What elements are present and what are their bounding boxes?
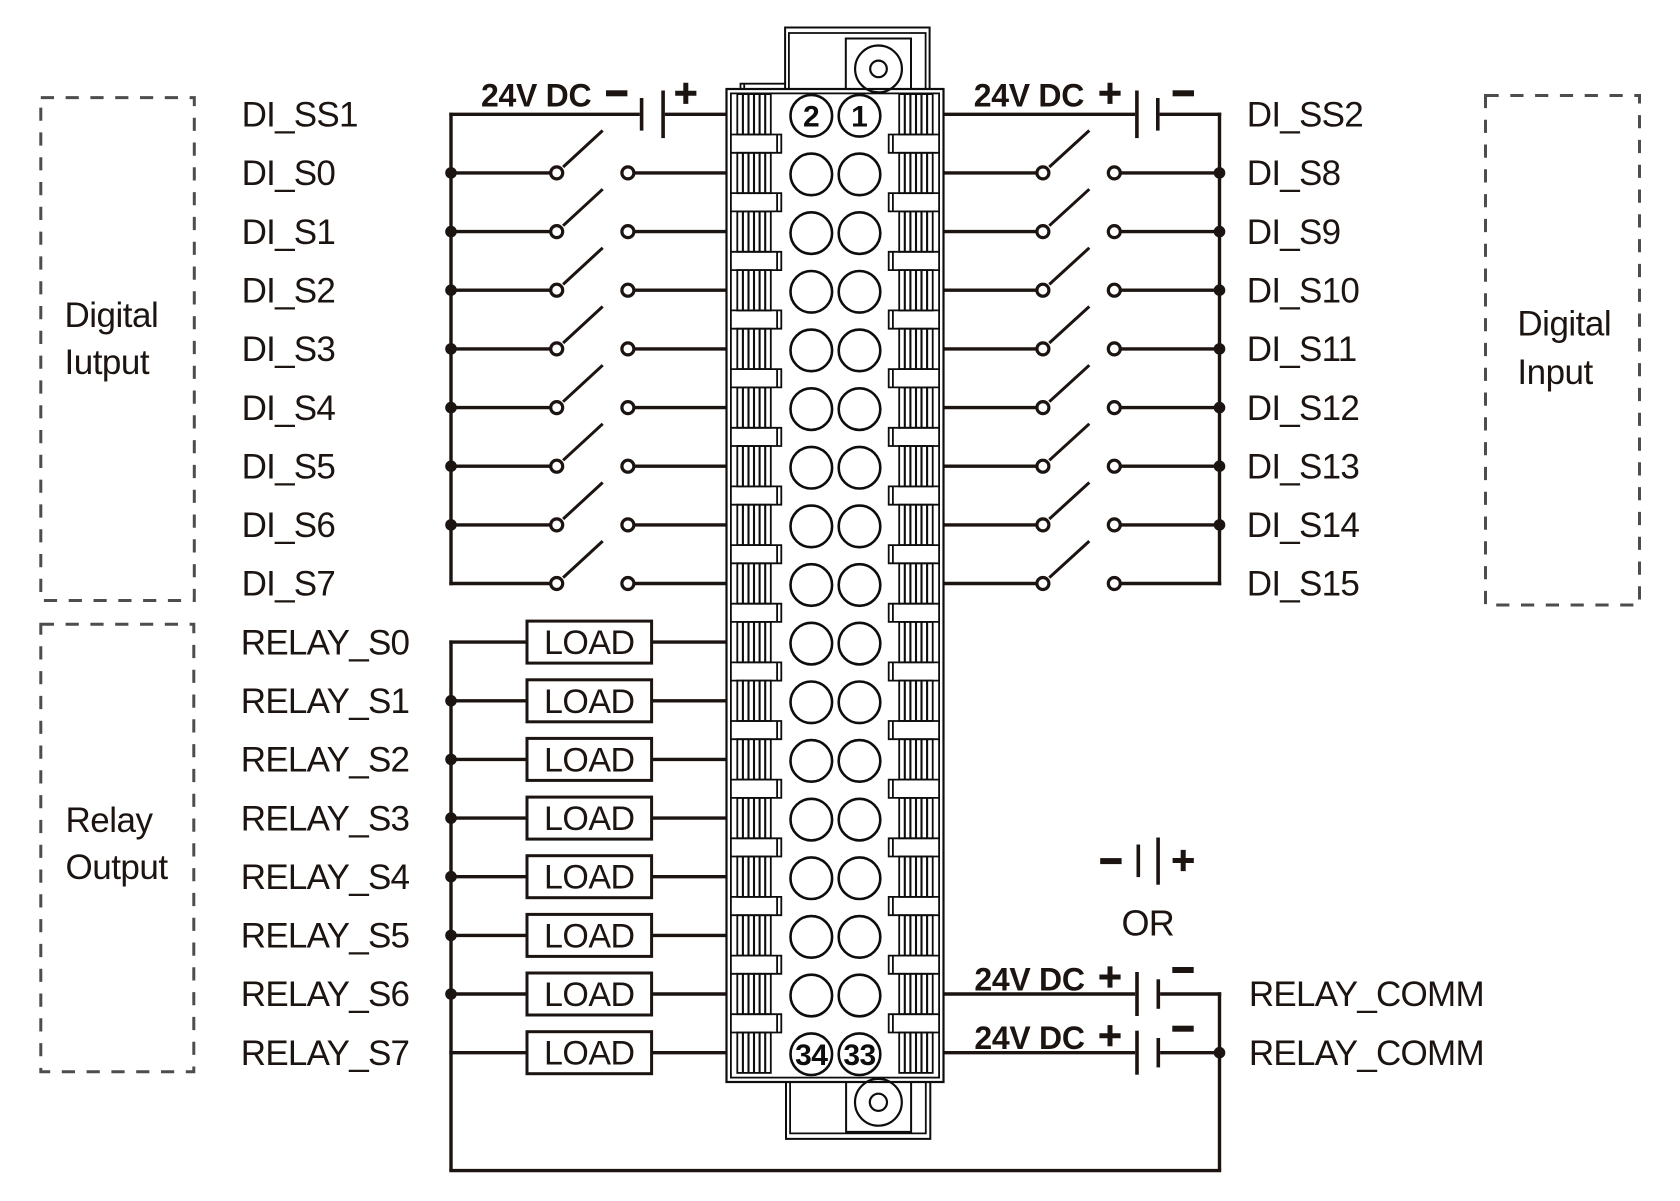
wire RELAY_S0 row: bus to load [449, 640, 527, 643]
housing clamp tooth row 11 right [899, 681, 933, 721]
terminal row 13 left pin [791, 799, 833, 841]
terminal row 4 left pin [791, 271, 833, 313]
housing clamp tooth row 8 right [899, 505, 933, 545]
housing divider step 3 right [889, 252, 939, 270]
housing clamp tooth row 11 left [737, 681, 771, 721]
terminal row 9 right pin [839, 564, 881, 606]
wire DI_S4 row: switch to connector [635, 406, 727, 409]
wire DI_S10 row: switch to bus [1121, 289, 1221, 292]
housing clamp tooth row 14 left [737, 857, 771, 897]
housing divider step 11 right [889, 721, 939, 739]
terminal pin 2 [791, 95, 833, 137]
label Digital Input [1517, 305, 1611, 393]
svg-text:DI_S2: DI_S2 [242, 271, 336, 310]
dashed group box: Digital Iutput (left top) [41, 98, 195, 601]
terminal pin 33 [839, 1033, 881, 1075]
terminal row 3 right pin [839, 212, 881, 254]
svg-text:RELAY_S0: RELAY_S0 [241, 623, 410, 662]
housing divider step 7 left [731, 486, 781, 504]
svg-text:1: 1 [851, 101, 868, 134]
wire DI_S1 row: switch to connector [635, 230, 727, 233]
svg-text:24V DC: 24V DC [974, 962, 1084, 998]
dashed group box: Relay Output (left bottom) [41, 624, 194, 1071]
svg-text:Digital: Digital [1517, 305, 1611, 344]
svg-text:Relay: Relay [66, 801, 154, 840]
label Relay Output [66, 801, 169, 887]
dashed group box: Digital Input (right) [1486, 96, 1640, 606]
housing clamp tooth row 3 right [899, 211, 933, 251]
svg-text:OR: OR [1122, 902, 1175, 943]
wire DI_S3 row: bus to switch [449, 347, 549, 350]
switch SW9 (DI_S9) [1037, 189, 1120, 237]
wire DI_S5 row: switch to connector [635, 465, 727, 468]
junction node DI_S4 on left bus [445, 402, 457, 414]
wire DI_S13 row: switch to bus [1121, 465, 1221, 468]
wire RELAY_S1 row: load to connector [652, 699, 727, 702]
housing divider step 16 left [731, 1014, 781, 1032]
housing clamp tooth row 10 left [737, 622, 771, 663]
terminal row 11 left pin [791, 682, 833, 724]
wire RELAY_S7 row: load to connector [652, 1051, 727, 1054]
svg-text:LOAD: LOAD [544, 800, 635, 838]
wire DI_S13 row: connector to switch [944, 465, 1036, 468]
wire: bottom return [449, 1169, 1221, 1172]
housing divider step 8 right [889, 545, 939, 563]
housing clamp tooth row 14 right [899, 857, 933, 897]
wire DI_S3 row: switch to connector [635, 347, 727, 350]
svg-text:DI_S14: DI_S14 [1247, 506, 1360, 545]
housing divider step 9 left [731, 604, 781, 622]
housing divider step 15 left [731, 956, 781, 974]
housing clamp tooth row 7 left [737, 446, 771, 486]
wire: right relay vertical drop [1218, 992, 1221, 1170]
junction node DI_S11 on right bus [1214, 343, 1226, 355]
terminal row 16 right pin [839, 975, 881, 1017]
housing divider step 12 left [731, 780, 781, 798]
svg-text:24V DC: 24V DC [974, 77, 1084, 113]
housing clamp tooth row 4 right [899, 270, 933, 310]
terminal pin 1 [839, 95, 881, 137]
terminal block connector: bottom mounting tab [786, 1082, 930, 1139]
terminal row 4 right pin [839, 271, 881, 313]
bottom screw hole [855, 1079, 902, 1126]
svg-text:DI_S7: DI_S7 [242, 565, 336, 604]
wire RELAY_S6 row: load to connector [652, 992, 727, 995]
svg-text:34: 34 [795, 1039, 828, 1072]
wire RELAY_S4 row: load to connector [652, 875, 727, 878]
svg-text:DI_S9: DI_S9 [1247, 213, 1341, 252]
terminal row 14 right pin [839, 857, 881, 899]
housing clamp tooth row 9 left [737, 563, 771, 603]
housing divider step 9 right [889, 604, 939, 622]
svg-text:DI_SS1: DI_SS1 [242, 96, 358, 135]
wire DI_S8 row: switch to bus [1121, 171, 1221, 174]
battery B4 24V DC (RELAY_COMM upper) [974, 962, 1193, 1017]
housing clamp tooth row 9 right [899, 563, 933, 603]
svg-text:33: 33 [843, 1039, 875, 1072]
svg-text:DI_S12: DI_S12 [1247, 389, 1359, 428]
wire DI_S9 row: switch to bus [1121, 230, 1221, 233]
junction node DI_S1 on left bus [445, 226, 457, 238]
svg-text:LOAD: LOAD [544, 683, 635, 721]
wire RELAY_COMM lower: connector to battery B5 [944, 1051, 1136, 1054]
wire RELAY_S3 row: load to connector [652, 816, 727, 819]
terminal row 8 right pin [839, 506, 881, 548]
wire DI_S6 row: switch to connector [635, 523, 727, 526]
wire DI_SS2: battery B2 to bus [1160, 113, 1222, 116]
housing clamp tooth row 13 left [737, 798, 771, 838]
top-left step of housing [741, 84, 786, 89]
wire RELAY_COMM lower: battery B5 to junction [1160, 1051, 1221, 1054]
terminal row 14 left pin [791, 857, 833, 899]
top screw hole [855, 46, 902, 93]
terminal row 15 right pin [839, 916, 881, 958]
terminal row 9 left pin [791, 564, 833, 606]
terminal row 6 right pin [839, 388, 881, 430]
wire RELAY_S2 row: load to connector [652, 758, 727, 761]
switch SW1 (DI_S1) [551, 189, 634, 237]
housing clamp tooth row 6 right [899, 387, 933, 427]
housing divider step 2 left [731, 193, 781, 211]
housing divider step 12 right [889, 780, 939, 798]
terminal row 5 right pin [839, 330, 881, 372]
housing divider step 4 right [889, 310, 939, 328]
svg-text:2: 2 [803, 101, 820, 134]
wire RELAY_S5 row: load to connector [652, 934, 727, 937]
switch SW4 (DI_S4) [551, 365, 634, 413]
housing divider step 6 left [731, 428, 781, 446]
wire DI_S15 row: switch to bus [1121, 582, 1221, 585]
svg-text:LOAD: LOAD [544, 917, 635, 955]
svg-text:DI_S10: DI_S10 [1247, 271, 1360, 310]
wire RELAY_S4 row: bus to load [449, 875, 527, 878]
housing clamp tooth row 16 right [899, 974, 933, 1014]
wire DI_S0 row: switch to connector [635, 171, 727, 174]
terminal row 2 right pin [839, 154, 881, 196]
terminal row 3 left pin [791, 212, 833, 254]
switch SW3 (DI_S3) [551, 307, 634, 355]
wire DI_S14 row: connector to switch [944, 523, 1036, 526]
svg-text:DI_S6: DI_S6 [242, 506, 336, 545]
svg-text:RELAY_S1: RELAY_S1 [241, 682, 409, 721]
load resistor LOAD7 (RELAY_S7) [527, 1032, 652, 1074]
terminal block connector: top mounting tab [785, 28, 930, 90]
housing divider step 6 right [889, 428, 939, 446]
wire DI_S7 row: switch to connector [635, 582, 727, 585]
switch SW2 (DI_S2) [551, 248, 634, 296]
switch SW10 (DI_S10) [1037, 248, 1120, 296]
switch SW11 (DI_S11) [1037, 307, 1120, 355]
terminal row 12 right pin [839, 740, 881, 782]
housing divider step 16 right [889, 1014, 939, 1032]
svg-text:DI_S15: DI_S15 [1247, 565, 1359, 604]
housing clamp tooth row 7 right [899, 446, 933, 486]
housing divider step 11 left [731, 721, 781, 739]
svg-text:LOAD: LOAD [544, 624, 635, 662]
wire DI_S6 row: bus to switch [449, 523, 549, 526]
battery B2 24V DC (top right) [974, 77, 1194, 138]
svg-text:Digital: Digital [65, 296, 159, 335]
svg-text:RELAY_COMM: RELAY_COMM [1249, 1034, 1484, 1073]
housing divider step 13 right [889, 838, 939, 856]
svg-text:DI_S4: DI_S4 [242, 389, 336, 428]
label Digital Iutput [65, 296, 159, 382]
housing divider step 1 right [889, 135, 939, 153]
wire RELAY_S2 row: bus to load [449, 758, 527, 761]
housing clamp tooth row 8 left [737, 505, 771, 545]
switch SW15 (DI_S15) [1037, 541, 1120, 589]
svg-text:RELAY_S4: RELAY_S4 [241, 858, 410, 897]
load resistor LOAD2 (RELAY_S2) [527, 738, 652, 780]
svg-text:DI_S8: DI_S8 [1247, 154, 1341, 193]
switch SW14 (DI_S14) [1037, 483, 1120, 531]
junction node RELAY_S1 on relay bus [445, 695, 457, 707]
svg-text:LOAD: LOAD [544, 1035, 635, 1073]
switch SW12 (DI_S12) [1037, 365, 1120, 413]
housing clamp tooth row 16 left [737, 974, 771, 1014]
junction node RELAY_COMM [1214, 1047, 1226, 1059]
terminal row 12 left pin [791, 740, 833, 782]
wire DI_S2 row: switch to connector [635, 289, 727, 292]
terminal row 10 right pin [839, 623, 881, 665]
housing divider step 14 right [889, 897, 939, 915]
housing divider step 3 left [731, 252, 781, 270]
svg-text:DI_S3: DI_S3 [242, 330, 336, 369]
housing divider step 5 left [731, 369, 781, 387]
terminal row 7 right pin [839, 447, 881, 489]
svg-text:RELAY_COMM: RELAY_COMM [1249, 975, 1484, 1014]
housing divider step 14 left [731, 897, 781, 915]
housing clamp tooth row 6 left [737, 387, 771, 427]
junction node RELAY_S6 on relay bus [445, 988, 457, 1000]
wire RELAY_S0 row: load to connector [652, 640, 727, 643]
junction node RELAY_S2 on relay bus [445, 754, 457, 766]
load resistor LOAD6 (RELAY_S6) [527, 973, 652, 1015]
svg-text:Output: Output [66, 848, 169, 887]
junction node DI_S6 on left bus [445, 519, 457, 531]
wire DI_S5 row: bus to switch [449, 465, 549, 468]
switch SW8 (DI_S8) [1037, 131, 1120, 179]
junction node DI_S2 on left bus [445, 284, 457, 296]
terminal row 11 right pin [839, 682, 881, 724]
svg-text:DI_S5: DI_S5 [242, 447, 336, 486]
wire: right DI vertical bus [1218, 113, 1221, 586]
housing clamp tooth row 17 right [899, 1033, 933, 1073]
switch SW13 (DI_S13) [1037, 424, 1120, 472]
housing clamp tooth row 5 right [899, 329, 933, 369]
junction node DI_S5 on left bus [445, 460, 457, 472]
terminal row 15 left pin [791, 916, 833, 958]
junction node DI_S12 on right bus [1214, 402, 1226, 414]
svg-text:RELAY_S6: RELAY_S6 [241, 975, 409, 1014]
junction node RELAY_S3 on relay bus [445, 812, 457, 824]
junction node DI_S3 on left bus [445, 343, 457, 355]
junction node RELAY_S5 on relay bus [445, 930, 457, 942]
wire RELAY_COMM upper: connector to battery B4 [944, 992, 1136, 995]
housing divider step 10 left [731, 662, 781, 680]
wire DI_SS1: bus to battery B1 [449, 113, 640, 116]
housing divider step 2 right [889, 193, 939, 211]
junction node DI_S8 on right bus [1214, 167, 1226, 179]
terminal row 7 left pin [791, 447, 833, 489]
battery B3 (alternative, floating) [1100, 838, 1194, 885]
svg-text:24V DC: 24V DC [974, 1020, 1084, 1056]
housing clamp tooth row 12 left [737, 739, 771, 779]
housing clamp tooth row 12 right [899, 739, 933, 779]
junction node DI_S9 on right bus [1214, 226, 1226, 238]
housing divider step 1 left [731, 135, 781, 153]
svg-text:DI_S0: DI_S0 [242, 154, 336, 193]
battery B1 24V DC (top left) [481, 77, 696, 138]
wire DI_SS1: battery B1 to connector [665, 113, 727, 116]
wire DI_S2 row: bus to switch [449, 289, 549, 292]
battery B5 24V DC (RELAY_COMM lower) [974, 1020, 1193, 1075]
terminal row 10 left pin [791, 623, 833, 665]
wire DI_SS2: connector to battery B2 [944, 113, 1136, 116]
terminal block connector: housing body [727, 89, 944, 1082]
terminal row 2 left pin [791, 154, 833, 196]
svg-text:DI_S1: DI_S1 [242, 213, 336, 252]
terminal row 16 left pin [791, 975, 833, 1017]
housing divider step 15 right [889, 956, 939, 974]
housing clamp tooth row 2 left [737, 153, 771, 193]
wire DI_S0 row: bus to switch [449, 171, 549, 174]
housing divider step 8 left [731, 545, 781, 563]
junction node DI_S10 on right bus [1214, 284, 1226, 296]
wire DI_S11 row: switch to bus [1121, 347, 1221, 350]
housing clamp tooth row 5 left [737, 329, 771, 369]
housing divider step 13 left [731, 838, 781, 856]
switch SW5 (DI_S5) [551, 424, 634, 472]
wire: left DI vertical bus [449, 113, 452, 586]
housing clamp tooth row 1 left [737, 94, 771, 134]
wire RELAY_S1 row: bus to load [449, 699, 527, 702]
wire DI_S12 row: switch to bus [1121, 406, 1221, 409]
wire RELAY_S7 row: bus to load [449, 1051, 527, 1054]
wire RELAY_S5 row: bus to load [449, 934, 527, 937]
svg-text:LOAD: LOAD [544, 741, 635, 779]
wire DI_S10 row: connector to switch [944, 289, 1036, 292]
load resistor LOAD1 (RELAY_S1) [527, 680, 652, 722]
housing divider step 10 right [889, 662, 939, 680]
load resistor LOAD0 (RELAY_S0) [527, 621, 652, 663]
svg-text:DI_S11: DI_S11 [1247, 330, 1357, 369]
svg-text:DI_S13: DI_S13 [1247, 447, 1359, 486]
housing clamp tooth row 4 left [737, 270, 771, 310]
wire DI_S11 row: connector to switch [944, 347, 1036, 350]
wire DI_S15 row: connector to switch [944, 582, 1036, 585]
svg-text:RELAY_S3: RELAY_S3 [241, 799, 409, 838]
svg-text:Input: Input [1517, 353, 1593, 392]
junction node DI_S13 on right bus [1214, 460, 1226, 472]
svg-text:Iutput: Iutput [65, 343, 150, 382]
housing divider step 4 left [731, 310, 781, 328]
wire DI_S4 row: bus to switch [449, 406, 549, 409]
terminal pin 34 [791, 1033, 833, 1075]
wire DI_S7 row: bus to switch [449, 582, 549, 585]
wire DI_S14 row: switch to bus [1121, 523, 1221, 526]
housing clamp tooth row 2 right [899, 153, 933, 193]
switch SW7 (DI_S7) [551, 541, 634, 589]
terminal row 13 right pin [839, 799, 881, 841]
housing divider step 5 right [889, 369, 939, 387]
housing clamp tooth row 13 right [899, 798, 933, 838]
housing clamp tooth row 17 left [737, 1033, 771, 1073]
terminal row 8 left pin [791, 506, 833, 548]
housing clamp tooth row 1 right [899, 94, 933, 134]
load resistor LOAD3 (RELAY_S3) [527, 797, 652, 839]
svg-text:LOAD: LOAD [544, 859, 635, 897]
junction node RELAY_S4 on relay bus [445, 871, 457, 883]
svg-text:DI_SS2: DI_SS2 [1247, 96, 1363, 135]
wire DI_S9 row: connector to switch [944, 230, 1036, 233]
junction node DI_S14 on right bus [1214, 519, 1226, 531]
load resistor LOAD4 (RELAY_S4) [527, 856, 652, 898]
wire: left relay vertical bus [449, 640, 452, 1170]
switch SW0 (DI_S0) [551, 131, 634, 179]
svg-text:RELAY_S2: RELAY_S2 [241, 741, 409, 780]
svg-text:24V DC: 24V DC [481, 77, 591, 113]
housing clamp tooth row 15 right [899, 915, 933, 955]
svg-text:RELAY_S7: RELAY_S7 [241, 1034, 409, 1073]
junction node DI_S0 on left bus [445, 167, 457, 179]
wire RELAY_S3 row: bus to load [449, 816, 527, 819]
load resistor LOAD5 (RELAY_S5) [527, 914, 652, 956]
wire RELAY_S6 row: bus to load [449, 992, 527, 995]
wire DI_S1 row: bus to switch [449, 230, 549, 233]
terminal row 5 left pin [791, 330, 833, 372]
wire RELAY_COMM upper: battery B4 to right drop [1160, 992, 1221, 995]
svg-text:LOAD: LOAD [544, 976, 635, 1014]
housing divider step 7 right [889, 486, 939, 504]
terminal row 6 left pin [791, 388, 833, 430]
housing clamp tooth row 3 left [737, 211, 771, 251]
wire DI_S8 row: connector to switch [944, 171, 1036, 174]
wire DI_S12 row: connector to switch [944, 406, 1036, 409]
housing clamp tooth row 15 left [737, 915, 771, 955]
housing clamp tooth row 10 right [899, 622, 933, 663]
svg-text:RELAY_S5: RELAY_S5 [241, 917, 409, 956]
switch SW6 (DI_S6) [551, 483, 634, 531]
